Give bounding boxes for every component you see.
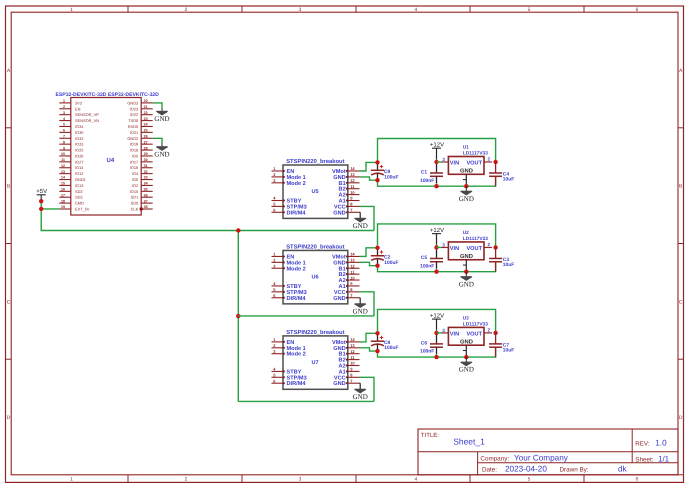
svg-text:6: 6: [636, 7, 639, 13]
svg-text:37: 37: [144, 199, 148, 203]
svg-text:34: 34: [144, 182, 148, 186]
svg-text:6: 6: [636, 477, 639, 483]
svg-text:TITLE:: TITLE:: [421, 432, 439, 439]
svg-text:STSPIN220_breakout: STSPIN220_breakout: [286, 329, 344, 336]
svg-text:2: 2: [488, 328, 491, 333]
svg-text:GND: GND: [154, 115, 169, 123]
svg-text:SENSOR_VP: SENSOR_VP: [75, 112, 99, 117]
svg-text:GND: GND: [333, 210, 345, 216]
svg-text:D: D: [7, 415, 11, 421]
svg-text:EXT_5V: EXT_5V: [75, 207, 90, 212]
svg-text:4: 4: [415, 7, 418, 13]
svg-text:LD1117V33: LD1117V33: [463, 236, 488, 242]
svg-text:C: C: [679, 299, 683, 305]
svg-text:C4: C4: [503, 171, 510, 177]
svg-text:11: 11: [61, 158, 65, 162]
svg-text:32: 32: [144, 170, 148, 174]
svg-text:+12V: +12V: [430, 313, 444, 320]
svg-text:27: 27: [144, 140, 148, 144]
svg-text:GND: GND: [333, 296, 345, 302]
svg-text:13: 13: [350, 258, 355, 263]
svg-text:100uF: 100uF: [384, 345, 398, 351]
svg-text:30: 30: [144, 158, 148, 162]
svg-text:9: 9: [63, 146, 65, 150]
svg-text:10uF: 10uF: [503, 177, 514, 183]
svg-text:U3: U3: [463, 316, 469, 321]
svg-text:10uF: 10uF: [503, 348, 514, 354]
svg-text:2: 2: [185, 477, 188, 483]
svg-text:+12V: +12V: [430, 227, 444, 234]
svg-text:15: 15: [61, 182, 65, 186]
svg-text:13: 13: [350, 172, 355, 177]
svg-text:VOUT: VOUT: [466, 331, 482, 337]
svg-text:13: 13: [61, 170, 65, 174]
svg-text:1: 1: [63, 99, 65, 103]
svg-text:IO12: IO12: [75, 171, 83, 176]
svg-text:VOUT: VOUT: [466, 161, 482, 167]
svg-text:2023-04-20: 2023-04-20: [505, 465, 547, 474]
svg-text:+12V: +12V: [430, 142, 444, 149]
svg-text:10uF: 10uF: [503, 262, 514, 268]
svg-text:IO0: IO0: [132, 177, 139, 182]
svg-text:LD1117V33: LD1117V33: [463, 322, 488, 328]
svg-text:4: 4: [415, 477, 418, 483]
svg-text:100uF: 100uF: [384, 260, 398, 266]
svg-text:35: 35: [144, 188, 148, 192]
svg-text:3: 3: [442, 157, 445, 162]
svg-text:ESP32-DEVKITC-32D ESP32-DEVKIT: ESP32-DEVKITC-32D ESP32-DEVKITC-32D: [56, 92, 160, 98]
svg-text:IO35: IO35: [75, 130, 83, 135]
svg-text:Mode 2: Mode 2: [287, 265, 306, 272]
svg-text:VOUT: VOUT: [466, 246, 482, 252]
svg-text:5: 5: [528, 7, 531, 13]
svg-text:Sheet:: Sheet:: [635, 456, 653, 463]
svg-text:C5: C5: [421, 255, 428, 261]
svg-text:1.0: 1.0: [655, 439, 667, 448]
svg-text:4: 4: [63, 117, 65, 121]
svg-text:7: 7: [63, 134, 65, 138]
svg-text:CLK: CLK: [131, 207, 139, 212]
svg-text:3: 3: [299, 477, 302, 483]
svg-text:3V3: 3V3: [75, 100, 82, 105]
svg-text:IO17: IO17: [130, 159, 138, 164]
svg-text:GND: GND: [460, 168, 473, 175]
svg-text:10: 10: [61, 152, 65, 156]
svg-text:1: 1: [70, 477, 73, 483]
svg-text:IO21: IO21: [130, 130, 138, 135]
svg-text:21: 21: [144, 105, 148, 109]
svg-text:GND1: GND1: [75, 177, 86, 182]
svg-text:TXD0: TXD0: [128, 118, 139, 123]
svg-text:2: 2: [63, 105, 65, 109]
svg-text:GND: GND: [459, 280, 474, 288]
svg-text:IO16: IO16: [130, 165, 138, 170]
svg-text:23: 23: [144, 117, 148, 121]
svg-text:GND: GND: [333, 381, 345, 387]
svg-text:3: 3: [63, 111, 65, 115]
svg-text:U4: U4: [107, 157, 115, 164]
svg-text:6: 6: [63, 129, 65, 133]
svg-text:GND: GND: [459, 195, 474, 203]
svg-text:GND2: GND2: [127, 136, 138, 141]
svg-text:38: 38: [144, 205, 148, 209]
svg-text:SD1: SD1: [131, 195, 139, 200]
svg-text:DIR/M4: DIR/M4: [287, 295, 307, 302]
svg-text:+5V: +5V: [36, 188, 47, 195]
svg-text:100uF: 100uF: [384, 174, 398, 180]
svg-text:16: 16: [61, 188, 65, 192]
svg-text:C7: C7: [503, 342, 510, 348]
svg-text:SD2: SD2: [75, 189, 83, 194]
svg-text:31: 31: [144, 164, 148, 168]
svg-text:U7: U7: [312, 360, 319, 366]
svg-text:C2: C2: [384, 254, 391, 260]
svg-text:3: 3: [442, 328, 445, 333]
svg-text:U1: U1: [463, 145, 469, 150]
svg-text:IO22: IO22: [130, 112, 138, 117]
svg-text:U6: U6: [312, 274, 319, 280]
svg-text:REV:: REV:: [635, 441, 649, 448]
svg-text:VIN: VIN: [450, 246, 459, 252]
svg-text:100nF: 100nF: [420, 349, 434, 355]
svg-text:DIR/M4: DIR/M4: [287, 209, 307, 216]
svg-text:IO26: IO26: [75, 153, 83, 158]
svg-text:8: 8: [63, 140, 65, 144]
svg-text:10: 10: [350, 361, 355, 366]
svg-text:12: 12: [61, 164, 65, 168]
svg-text:24: 24: [144, 123, 148, 127]
svg-text:C9: C9: [384, 169, 391, 175]
svg-text:10: 10: [350, 190, 355, 195]
svg-text:U2: U2: [463, 230, 469, 235]
svg-text:1/1: 1/1: [658, 454, 670, 463]
svg-text:1: 1: [70, 7, 73, 13]
svg-text:2: 2: [488, 157, 491, 162]
svg-text:U5: U5: [312, 189, 319, 195]
svg-text:22: 22: [144, 111, 148, 115]
svg-text:17: 17: [61, 193, 65, 197]
svg-text:25: 25: [144, 129, 148, 133]
svg-text:12: 12: [350, 178, 355, 183]
svg-text:GND: GND: [459, 366, 474, 374]
svg-text:RXD0: RXD0: [128, 124, 139, 129]
svg-text:IO27: IO27: [75, 159, 83, 164]
svg-text:3: 3: [442, 242, 445, 247]
svg-text:IO32: IO32: [75, 136, 83, 141]
svg-text:Drawn By:: Drawn By:: [560, 466, 589, 473]
svg-text:IO5: IO5: [132, 153, 138, 158]
svg-text:C: C: [7, 299, 11, 305]
svg-text:Company:: Company:: [480, 455, 509, 462]
svg-text:SENSOR_VN: SENSOR_VN: [75, 118, 99, 123]
svg-text:2: 2: [488, 242, 491, 247]
svg-text:5: 5: [528, 477, 531, 483]
svg-text:IO14: IO14: [75, 165, 84, 170]
svg-text:C1: C1: [421, 169, 428, 175]
svg-text:29: 29: [144, 152, 148, 156]
svg-text:Sheet_1: Sheet_1: [453, 436, 485, 446]
svg-text:GND: GND: [353, 393, 368, 401]
svg-text:IO2: IO2: [132, 183, 138, 188]
svg-text:GND: GND: [460, 338, 473, 345]
svg-text:dk: dk: [618, 464, 628, 473]
svg-text:C3: C3: [503, 257, 510, 263]
svg-text:13: 13: [350, 343, 355, 348]
svg-text:Mode 2: Mode 2: [287, 180, 306, 187]
svg-text:19: 19: [61, 205, 65, 209]
svg-text:GND: GND: [353, 307, 368, 315]
svg-text:14: 14: [61, 176, 65, 180]
svg-text:D: D: [679, 415, 683, 421]
svg-text:100nF: 100nF: [420, 263, 434, 269]
svg-text:GND: GND: [154, 150, 169, 158]
svg-text:26: 26: [144, 134, 148, 138]
svg-text:18: 18: [61, 199, 65, 203]
svg-text:2: 2: [185, 7, 188, 13]
svg-text:Your Company: Your Company: [514, 454, 569, 463]
svg-text:3: 3: [299, 7, 302, 13]
svg-text:36: 36: [144, 193, 148, 197]
svg-text:C8: C8: [384, 340, 391, 346]
svg-text:IO33: IO33: [75, 142, 83, 147]
svg-text:SD0: SD0: [131, 201, 139, 206]
svg-text:33: 33: [144, 176, 148, 180]
svg-text:12: 12: [350, 349, 355, 354]
svg-text:IO15: IO15: [130, 189, 138, 194]
svg-text:5: 5: [63, 123, 65, 127]
svg-text:GND: GND: [460, 253, 473, 260]
svg-text:14: 14: [350, 337, 355, 342]
svg-text:14: 14: [350, 166, 355, 171]
svg-text:IO19: IO19: [130, 142, 138, 147]
svg-text:CMD: CMD: [75, 201, 84, 206]
svg-text:DIR/M4: DIR/M4: [287, 380, 307, 387]
svg-text:IO34: IO34: [75, 124, 84, 129]
svg-text:EN: EN: [75, 106, 81, 111]
svg-text:IO18: IO18: [130, 148, 138, 153]
svg-text:Date:: Date:: [482, 466, 497, 473]
svg-text:STSPIN220_breakout: STSPIN220_breakout: [286, 243, 344, 250]
svg-text:100nF: 100nF: [420, 178, 434, 184]
svg-text:IO25: IO25: [75, 148, 83, 153]
svg-text:Mode 2: Mode 2: [287, 351, 306, 358]
svg-text:IO13: IO13: [75, 183, 83, 188]
svg-text:GND3: GND3: [127, 100, 138, 105]
svg-text:LD1117V33: LD1117V33: [463, 151, 488, 157]
svg-text:STSPIN220_breakout: STSPIN220_breakout: [286, 158, 344, 165]
svg-text:IO23: IO23: [130, 106, 138, 111]
svg-text:SD3: SD3: [75, 195, 83, 200]
svg-text:14: 14: [350, 252, 355, 257]
svg-text:12: 12: [350, 263, 355, 268]
svg-text:C6: C6: [421, 340, 428, 346]
svg-text:IO4: IO4: [132, 171, 139, 176]
svg-text:VIN: VIN: [450, 331, 459, 337]
svg-text:20: 20: [144, 99, 148, 103]
svg-text:GND: GND: [353, 222, 368, 230]
svg-text:VIN: VIN: [450, 161, 459, 167]
svg-text:10: 10: [350, 275, 355, 280]
svg-text:28: 28: [144, 146, 148, 150]
